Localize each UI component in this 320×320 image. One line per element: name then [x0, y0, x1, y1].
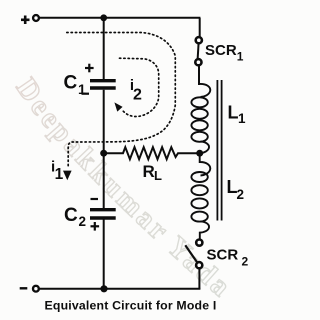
wire bottom horizontal	[39, 288, 200, 290]
SCR1	[195, 37, 244, 65]
current loop i1 arrowhead	[63, 171, 72, 181]
wire middle vertical lower (C2 to bottom wire)	[103, 220, 105, 289]
minus sign (negative terminal label)	[20, 287, 28, 289]
svg-text:SCR: SCR	[205, 42, 237, 59]
current loop i2 arrowhead	[114, 102, 122, 111]
negative terminal circle	[33, 286, 39, 292]
wire middle vertical upper (top wire to C1)	[103, 18, 105, 80]
svg-text:2: 2	[237, 187, 245, 202]
wire right vertical (SCR1 to L1)	[198, 65, 200, 85]
capacitor C2	[64, 199, 116, 231]
inductor L1	[191, 84, 246, 153]
wire right vertical upper (top wire to SCR1)	[199, 18, 201, 38]
svg-text:R: R	[143, 162, 155, 181]
svg-text:L: L	[154, 168, 162, 183]
svg-text:1: 1	[237, 50, 244, 64]
label i1	[51, 159, 64, 184]
svg-text:1: 1	[55, 166, 64, 183]
node junction top (middle branch)	[100, 14, 107, 21]
current loop i2 dashed path	[120, 58, 159, 116]
inductor L2	[191, 153, 244, 239]
wire top horizontal	[39, 17, 200, 19]
plus sign (positive terminal label)	[21, 16, 30, 25]
label i2	[130, 77, 142, 104]
wire right vertical lower (SCR2 to bottom wire)	[198, 268, 200, 289]
svg-text:L: L	[228, 103, 239, 123]
node junction bottom (middle branch)	[100, 285, 107, 292]
svg-text:C: C	[64, 73, 78, 94]
svg-text:Equivalent Circuit for Mode I: Equivalent Circuit for Mode I	[45, 298, 217, 312]
wire middle vertical (C1 to C2)	[103, 90, 105, 209]
resistor RL with connecting wire	[104, 147, 200, 183]
positive terminal circle	[33, 15, 39, 21]
svg-text:C: C	[64, 205, 78, 226]
svg-text:2: 2	[133, 87, 142, 104]
svg-text:2: 2	[79, 214, 87, 229]
svg-text:1: 1	[78, 81, 86, 97]
capacitor C1	[64, 64, 116, 97]
node junction middle-left	[100, 150, 107, 157]
SCR2	[185, 240, 248, 269]
svg-text:SCR: SCR	[207, 247, 239, 264]
svg-text:2: 2	[242, 255, 249, 269]
svg-text:1: 1	[238, 111, 246, 126]
current loop i1 dashed path	[67, 33, 176, 169]
transformer core	[217, 80, 221, 221]
node junction middle-right	[196, 150, 203, 157]
